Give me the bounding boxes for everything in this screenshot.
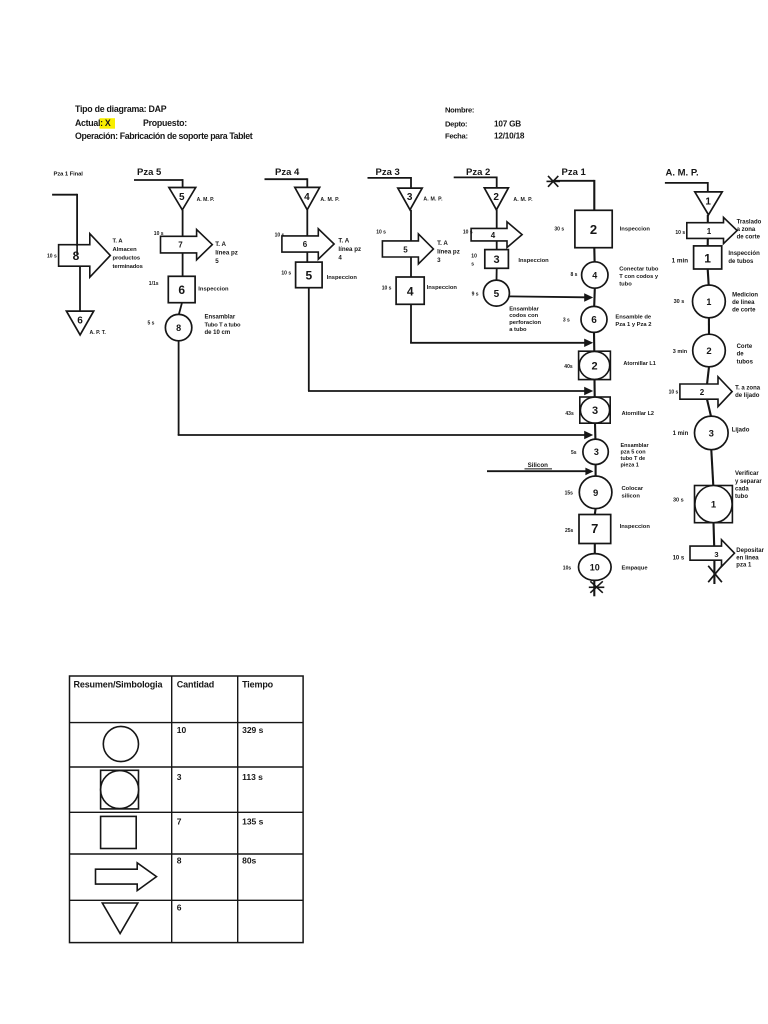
transport arrow 6 (T.A linea pz 4) (282, 229, 334, 259)
svg-text:Depto:: Depto: (445, 119, 467, 128)
svg-text:tubo: tubo (735, 494, 748, 500)
svg-text:T con codos y: T con codos y (619, 274, 659, 280)
wire triangle5 to arrow7 (182, 210, 184, 237)
svg-text:30 s: 30 s (554, 226, 564, 232)
svg-text:Inspeccion: Inspeccion (327, 275, 358, 281)
inspection square 6 (168, 276, 195, 302)
svg-text:Pza 1: Pza 1 (562, 167, 587, 178)
svg-text:T. a zona: T. a zona (735, 385, 761, 391)
wire combined3 to circle8b (594, 423, 597, 439)
arrowhead into pza1 (584, 431, 593, 439)
svg-text:3: 3 (494, 254, 500, 266)
wire arrow5 to square4 (410, 257, 412, 277)
svg-text:2: 2 (590, 222, 597, 237)
wire pza3 down (410, 177, 412, 189)
wire square1 to circle1 (708, 269, 709, 286)
svg-text:T. A: T. A (338, 237, 349, 244)
svg-text:Atornillar L2: Atornillar L2 (622, 411, 654, 417)
svg-text:Depositar: Depositar (736, 548, 764, 554)
svg-text:Colocar: Colocar (622, 486, 644, 492)
inspection square 3 (485, 250, 509, 269)
svg-text:Conectar tubo: Conectar tubo (619, 267, 659, 273)
svg-text:Inspeccion: Inspeccion (427, 285, 458, 291)
svg-text:7: 7 (177, 816, 182, 826)
svg-text:Inspeccion: Inspeccion (620, 226, 651, 232)
yellow highlight behind X (100, 118, 116, 129)
svg-text:1/1s: 1/1s (149, 281, 159, 287)
svg-text:3: 3 (592, 405, 598, 417)
svg-text:1 min: 1 min (673, 431, 689, 437)
svg-text:7: 7 (591, 521, 598, 536)
svg-text:Atornillar L1: Atornillar L1 (623, 361, 655, 367)
svg-text:terminados: terminados (113, 264, 143, 270)
svg-text:Almacen: Almacen (113, 247, 138, 253)
svg-text:9: 9 (593, 488, 598, 499)
triangle 2 (A.M.P. storage) (484, 188, 508, 210)
svg-text:Silicon: Silicon (528, 462, 549, 469)
svg-text:30 s: 30 s (673, 498, 684, 504)
inspection square 7 (25s) (579, 515, 611, 544)
svg-text:12/10/18: 12/10/18 (494, 132, 525, 141)
operation ellipse 10 (Empaque) (579, 554, 612, 581)
svg-text:3 s: 3 s (563, 318, 570, 324)
inspection square 1 (1 min) (694, 246, 722, 269)
svg-text:T. A: T. A (437, 240, 448, 247)
svg-text:15s: 15s (565, 491, 574, 497)
svg-text:10: 10 (590, 562, 600, 572)
end marker X bottom amp (708, 566, 722, 582)
wire pza5 connector right (178, 434, 585, 436)
svg-text:productos: productos (113, 256, 140, 262)
svg-text:Ensamblar: Ensamblar (621, 443, 650, 449)
svg-text:Inspeccion: Inspeccion (518, 258, 549, 264)
svg-text:329 s: 329 s (242, 725, 264, 735)
svg-text:1: 1 (707, 227, 712, 236)
svg-text:codos con: codos con (509, 313, 538, 319)
svg-text:5s: 5s (571, 450, 577, 456)
svg-text:10: 10 (471, 254, 477, 260)
svg-text:A. M. P.: A. M. P. (423, 197, 443, 203)
svg-text:perforacion: perforacion (509, 320, 541, 326)
svg-text:6: 6 (303, 240, 308, 249)
svg-text:tubo: tubo (619, 281, 632, 287)
svg-text:silicon: silicon (622, 494, 641, 500)
svg-text:Verificar: Verificar (735, 471, 759, 477)
transport arrow 7 (T.A linea pz 5) (161, 230, 213, 260)
svg-text:5: 5 (403, 246, 408, 255)
svg-text:Resumen/Simbologia: Resumen/Simbologia (74, 679, 164, 689)
svg-text:5 s: 5 s (148, 321, 155, 327)
svg-text:3: 3 (177, 772, 182, 782)
svg-text:10 s: 10 s (382, 285, 392, 291)
wire triangle3 to arrow5 (410, 210, 412, 241)
wire pza5 down (182, 179, 184, 188)
wire arrow7 to square6 (182, 253, 184, 277)
transport arrow 4 (471, 222, 522, 248)
wire amp top horizontal (665, 182, 708, 184)
svg-text:107 GB: 107 GB (494, 119, 521, 128)
wire pza2 down (496, 177, 498, 189)
wire circle1 to circle2 (708, 318, 710, 335)
svg-text:135 s: 135 s (242, 816, 264, 826)
svg-text:Pza 1 Final: Pza 1 Final (54, 172, 84, 178)
svg-text:Lijado: Lijado (732, 428, 750, 434)
svg-text:1: 1 (706, 297, 711, 307)
svg-text:tubo T de: tubo T de (621, 456, 646, 462)
svg-text:2: 2 (493, 192, 499, 203)
svg-text:1: 1 (711, 500, 717, 511)
svg-text:línea pz: línea pz (338, 246, 361, 253)
operation circle 3 (Lijado) (695, 416, 729, 450)
inspection square 2 (30 s) (575, 210, 612, 247)
svg-text:A. M. P.: A. M. P. (320, 197, 340, 203)
wire combined1 to arrow3 (712, 523, 715, 547)
svg-text:Medicion: Medicion (732, 292, 758, 298)
svg-text:40s: 40s (564, 364, 573, 370)
wire pza5 long down (178, 341, 180, 435)
svg-text:10 s: 10 s (669, 390, 679, 396)
svg-text:Pza 3: Pza 3 (376, 167, 400, 178)
underline Silicon (525, 468, 553, 470)
transport arrow 1 (Traslado) (687, 217, 737, 243)
wire pza1final top horizontal (52, 194, 77, 196)
wire pza1 down to square2 (593, 180, 595, 210)
svg-text:7: 7 (178, 240, 183, 249)
svg-text:Inspección: Inspección (728, 251, 760, 257)
svg-text:3: 3 (407, 192, 413, 203)
transport arrow 5 (T.A linea pz 3) (382, 234, 433, 264)
wire arrow6 to square5 (306, 252, 308, 262)
wire pza2 connector right (509, 295, 585, 298)
triangle 1 (storage) (695, 192, 722, 215)
table row line 2 (70, 766, 304, 768)
wire arrow2 to circle3 (707, 399, 711, 416)
wire pza1 top horizontal (553, 180, 594, 182)
transport arrow 8 (T.A Almacen) (59, 234, 111, 278)
arrowhead silicon (585, 468, 593, 476)
svg-text:Ensamblar: Ensamblar (205, 315, 236, 321)
svg-text:Pza 4: Pza 4 (275, 167, 300, 178)
wire square3 to circle5 (496, 268, 498, 280)
arrowhead into pza1 (584, 339, 593, 347)
svg-text:tubos: tubos (737, 359, 754, 365)
svg-text:80s: 80s (242, 855, 256, 865)
svg-text:A. M. P.: A. M. P. (666, 168, 699, 179)
svg-text:a zona: a zona (737, 227, 756, 233)
transport arrow 3 (Depositar) (690, 540, 735, 567)
svg-text:línea pz: línea pz (437, 248, 460, 255)
arrowhead into pza1 (584, 387, 593, 395)
svg-text:10 s: 10 s (675, 230, 685, 236)
svg-text:Fecha:: Fecha: (445, 132, 468, 141)
svg-text:5: 5 (494, 289, 500, 300)
svg-text:25s: 25s (565, 528, 574, 534)
wire arrow8 to triangle6 (79, 266, 81, 311)
table row line 1 (70, 722, 304, 724)
wire pza1 bottom tail (593, 580, 595, 596)
wire pza5 top horizontal (134, 179, 183, 181)
svg-text:de tubos: de tubos (728, 259, 754, 265)
svg-text:Inspeccion: Inspeccion (198, 287, 229, 293)
svg-text:T. A: T. A (113, 239, 124, 245)
wire circle6 to combined2 (593, 332, 595, 351)
wire square6 to circle8 (179, 303, 182, 315)
wire pza2 top horizontal (454, 176, 497, 178)
wire pza3 top horizontal (368, 177, 412, 179)
summary table frame (70, 676, 304, 943)
svg-text:pza 1: pza 1 (736, 563, 752, 569)
combined symbol 3 (Atornillar L2): circle in square (580, 397, 610, 423)
svg-text:Corte: Corte (737, 344, 753, 350)
operation circle 8 (Ensamblar Tubo T) (165, 314, 191, 340)
svg-text:Actual: X: Actual: X (75, 118, 111, 128)
wire triangle1 to arrow1 (707, 215, 709, 224)
wire pza3 down after square (410, 304, 412, 343)
svg-text:Ensamblar: Ensamblar (509, 306, 539, 312)
svg-text:Pza 2: Pza 2 (466, 167, 490, 178)
storage triangle 6 (A.P.T.) (66, 311, 93, 335)
svg-text:4: 4 (338, 254, 342, 261)
table symbol inspection square (101, 816, 137, 848)
svg-text:5: 5 (215, 258, 219, 265)
svg-text:Tubo T a tubo: Tubo T a tubo (205, 322, 242, 328)
svg-text:2: 2 (706, 346, 711, 357)
table column line 2 (237, 676, 239, 943)
operation circle 2 (Corte) (693, 334, 726, 367)
svg-text:10 s: 10 s (281, 270, 291, 276)
svg-text:30 s: 30 s (674, 299, 685, 305)
svg-text:Ensamble de: Ensamble de (615, 314, 652, 320)
combined symbol 2 (Atornillar L1): circle in square (579, 351, 611, 379)
wire pza1final down to arrow (76, 194, 78, 246)
operation circle 6 (Ensamble) (581, 306, 607, 332)
wire silicon horizontal (487, 470, 586, 472)
svg-text:5: 5 (305, 269, 312, 283)
svg-text:en linea: en linea (736, 555, 759, 561)
svg-text:1: 1 (704, 251, 711, 265)
svg-text:10 s: 10 s (463, 229, 473, 235)
svg-text:10: 10 (177, 725, 187, 735)
svg-text:10 s: 10 s (275, 233, 285, 239)
svg-text:10 s: 10 s (376, 230, 386, 236)
wire arrow4 to square3 (496, 241, 498, 250)
svg-text:de corte: de corte (732, 308, 756, 314)
svg-text:Pza 1 y Pza 2: Pza 1 y Pza 2 (615, 322, 651, 328)
table symbol transport arrow (96, 863, 157, 891)
svg-text:Pza 5: Pza 5 (137, 167, 162, 178)
svg-text:pza 5 con: pza 5 con (621, 449, 647, 455)
svg-text:Empaque: Empaque (622, 566, 649, 572)
operation circle 5 (Ensamblar codos) (483, 280, 509, 306)
wire arrow3 bottom tail (713, 560, 715, 584)
svg-text:de 10 cm: de 10 cm (205, 330, 231, 336)
wire triangle4 to arrow6 (306, 210, 308, 237)
wire square7 to ellipse10 (594, 544, 596, 554)
table symbol operation circle (103, 726, 138, 761)
svg-text:6: 6 (178, 283, 185, 297)
svg-text:4: 4 (592, 270, 597, 280)
wire circle9 to square7 (594, 509, 597, 515)
svg-text:y separar: y separar (735, 479, 762, 485)
wire combined2 to combined3 (593, 380, 595, 397)
svg-text:Propuesto:: Propuesto: (143, 118, 187, 128)
wire pza4 down (306, 178, 308, 188)
svg-text:A. M. P.: A. M. P. (513, 197, 533, 203)
svg-text:5: 5 (179, 192, 185, 203)
svg-text:2: 2 (591, 360, 597, 372)
svg-text:de corte: de corte (737, 235, 761, 241)
svg-text:10 s: 10 s (47, 254, 57, 260)
table symbol storage triangle (102, 903, 138, 934)
svg-text:3 min: 3 min (673, 349, 688, 355)
start marker asterisk at pza1 wire (547, 180, 561, 182)
wire circle8b to circle9 (595, 464, 597, 476)
wire circle3 to combined1 (711, 450, 713, 486)
svg-text:de linea: de linea (732, 300, 755, 306)
inspection square 5 (296, 262, 323, 288)
operation circle 4 (Conectar tubo) (582, 262, 608, 288)
svg-text:de lijado: de lijado (735, 393, 760, 399)
svg-text:113 s: 113 s (242, 772, 263, 782)
combined symbol 1 (Verificar): circle in square (695, 486, 733, 523)
operation circle 9 (Colocar silicon) (579, 476, 612, 509)
svg-text:6: 6 (591, 315, 597, 326)
wire circle2 to arrow2 (707, 367, 709, 385)
operation circle 1 (Medicion) (693, 285, 726, 318)
svg-text:Tipo de diagrama: DAP: Tipo de diagrama: DAP (75, 104, 167, 114)
svg-text:8: 8 (73, 249, 80, 263)
arrowhead into pza1 (584, 293, 593, 301)
svg-text:6: 6 (177, 903, 182, 913)
wire triangle2 to arrow4 (496, 210, 498, 229)
svg-text:6: 6 (77, 316, 83, 327)
svg-text:T. A: T. A (215, 241, 226, 248)
svg-text:3: 3 (437, 257, 441, 264)
wire square2 to circle4 (593, 248, 595, 262)
svg-text:10 s: 10 s (673, 556, 685, 562)
svg-text:s: s (471, 262, 474, 268)
svg-text:Tiempo: Tiempo (242, 679, 274, 689)
table column line 1 (171, 676, 173, 943)
inspection square 4 (396, 277, 424, 304)
svg-text:Inspeccion: Inspeccion (620, 524, 651, 530)
svg-text:Cantidad: Cantidad (177, 679, 214, 689)
svg-text:10s: 10s (563, 566, 572, 572)
table row line 5 (70, 899, 304, 901)
triangle 3 (A.M.P. storage) (398, 188, 422, 210)
end marker asterisk bottom pza1 (589, 586, 605, 588)
svg-text:línea pz: línea pz (215, 249, 238, 256)
svg-text:Traslado: Traslado (737, 219, 762, 225)
svg-text:9 s: 9 s (472, 291, 479, 297)
svg-text:A. P. T.: A. P. T. (90, 330, 107, 336)
svg-text:3: 3 (594, 447, 599, 457)
wire arrow1 to square1 (707, 238, 709, 246)
wire circle4 to circle6 (593, 288, 596, 306)
wire pza3 connector right (410, 342, 585, 344)
svg-text:3: 3 (709, 429, 714, 440)
svg-text:Nombre:: Nombre: (445, 105, 474, 114)
transport arrow 2 (T. a zona de lijado) (680, 377, 732, 407)
svg-text:cada: cada (735, 486, 749, 492)
svg-text:A. M. P.: A. M. P. (197, 197, 215, 203)
svg-text:8 s: 8 s (571, 272, 578, 278)
operation circle (Ensamblar pza 5) (583, 439, 608, 464)
svg-text:10 s: 10 s (154, 231, 164, 237)
svg-text:4: 4 (407, 284, 414, 298)
svg-text:Operación: Fabricación de sopo: Operación: Fabricación de soporte para T… (75, 131, 253, 141)
wire amp down (707, 182, 709, 193)
svg-text:de: de (737, 351, 745, 357)
wire pza4 connector right (308, 390, 585, 392)
svg-text:a tubo: a tubo (509, 327, 527, 333)
svg-text:8: 8 (176, 323, 181, 333)
wire pza4 top horizontal (265, 178, 308, 180)
triangle 4 (A.M.P. storage) (295, 187, 320, 209)
table symbol combined circle-square (101, 770, 139, 809)
svg-text:4: 4 (304, 192, 310, 203)
svg-text:43s: 43s (565, 411, 574, 417)
svg-text:4: 4 (491, 231, 496, 240)
svg-text:2: 2 (700, 388, 705, 397)
svg-text:1 min: 1 min (672, 257, 689, 264)
svg-text:1: 1 (705, 196, 711, 207)
table row line 4 (70, 853, 304, 855)
table row line 3 (70, 811, 304, 813)
wire into arrow 8 (76, 245, 78, 255)
wire pza4 long down (308, 288, 310, 391)
svg-text:3: 3 (714, 550, 718, 559)
triangle 5 (A.M.P. storage) (169, 188, 196, 210)
svg-text:8: 8 (177, 855, 182, 865)
svg-text:pieza 1: pieza 1 (621, 462, 639, 468)
